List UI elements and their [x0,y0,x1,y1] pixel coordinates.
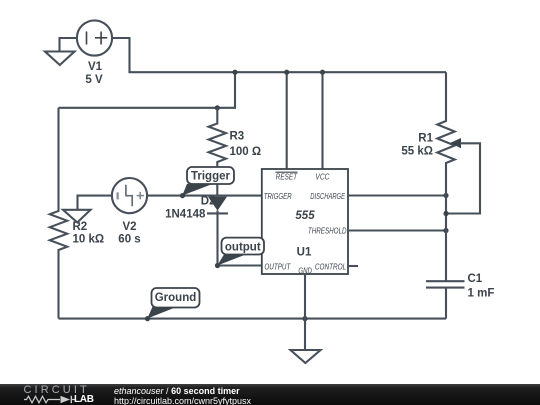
svg-text:555: 555 [295,210,315,222]
ground symbol bottom [291,350,321,363]
svg-text:CONTROL: CONTROL [315,261,347,271]
wire: output node to 555 OUTPUT [218,264,262,266]
flag Trigger callout [182,167,234,196]
svg-text:VCC: VCC [315,171,330,181]
svg-text:R1: R1 [418,133,433,145]
potentiometer R1 [437,72,480,281]
logo resistor-diode glyph + LAB [24,395,79,405]
wire: DISCHARGE to R1 node [348,194,446,196]
flag Ground callout [147,288,199,319]
capacitor C1 [426,281,465,318]
node dot output [215,263,220,268]
svg-text:100 Ω: 100 Ω [230,146,262,158]
node dot ground callout [145,316,150,321]
flag output callout [217,238,264,266]
svg-text:Trigger: Trigger [191,171,231,183]
voltage source V1 [77,20,112,55]
svg-text:5 V: 5 V [85,74,103,86]
wire: 555 GND pin down to ground [304,274,306,350]
wire: CONTROL stub [348,265,358,267]
svg-text:RESET: RESET [276,171,298,181]
footer bar [0,384,540,405]
resistor R3 [209,108,226,196]
bottom rail wire [59,318,447,320]
op-amp-box: 555 timer U1 [262,169,348,275]
resistor R2 [50,108,67,319]
svg-text:V2: V2 [122,221,136,233]
svg-text:60 s: 60 s [118,234,140,246]
svg-text:GND: GND [298,265,312,275]
diode D2 [207,197,228,266]
svg-text:Ground: Ground [155,292,197,304]
svg-text:C1: C1 [468,273,483,285]
wire: branch from top rail down to mid rail [59,72,236,108]
wire: VCC pin to top rail [321,72,323,169]
node dot THRESHOLD / C1 [443,228,448,233]
svg-text:OUTPUT: OUTPUT [264,261,290,271]
svg-text:R2: R2 [73,221,88,233]
ground symbol for V1 [45,38,77,65]
node dot top rail / branch [232,70,237,75]
ground symbol for V2 [63,196,112,223]
svg-text:TRIGGER: TRIGGER [264,191,292,201]
svg-text:55 kΩ: 55 kΩ [401,146,433,158]
svg-text:1N4148: 1N4148 [165,208,206,220]
wire: THRESHOLD to C1 node [348,229,446,231]
svg-text:1 mF: 1 mF [468,287,495,299]
voltage source V2 (pulse) [112,178,147,213]
svg-text:10 kΩ: 10 kΩ [73,234,105,246]
logo CIRCUIT [24,384,90,396]
svg-text:DISCHARGE: DISCHARGE [310,191,345,201]
node dot DISCHARGE / R1 [443,193,448,198]
node dot mid rail / R3 [215,105,220,110]
node dot GND junction [302,316,307,321]
svg-text:D2: D2 [201,195,216,207]
wire: V2 to 555 TRIGGER [147,195,262,197]
svg-text:U1: U1 [297,247,312,259]
svg-text:V1: V1 [88,61,103,73]
node dot trigger wire [180,193,185,198]
node dot RESET / top rail [284,70,289,75]
node dot VCC / top rail [320,70,325,75]
svg-text:THRESHOLD: THRESHOLD [308,226,347,236]
wire: RESET pin to top rail [286,72,288,169]
svg-text:output: output [225,242,261,254]
wire: V1 to top rail [112,38,446,72]
attribution text [114,386,240,396]
svg-text:R3: R3 [230,131,245,143]
